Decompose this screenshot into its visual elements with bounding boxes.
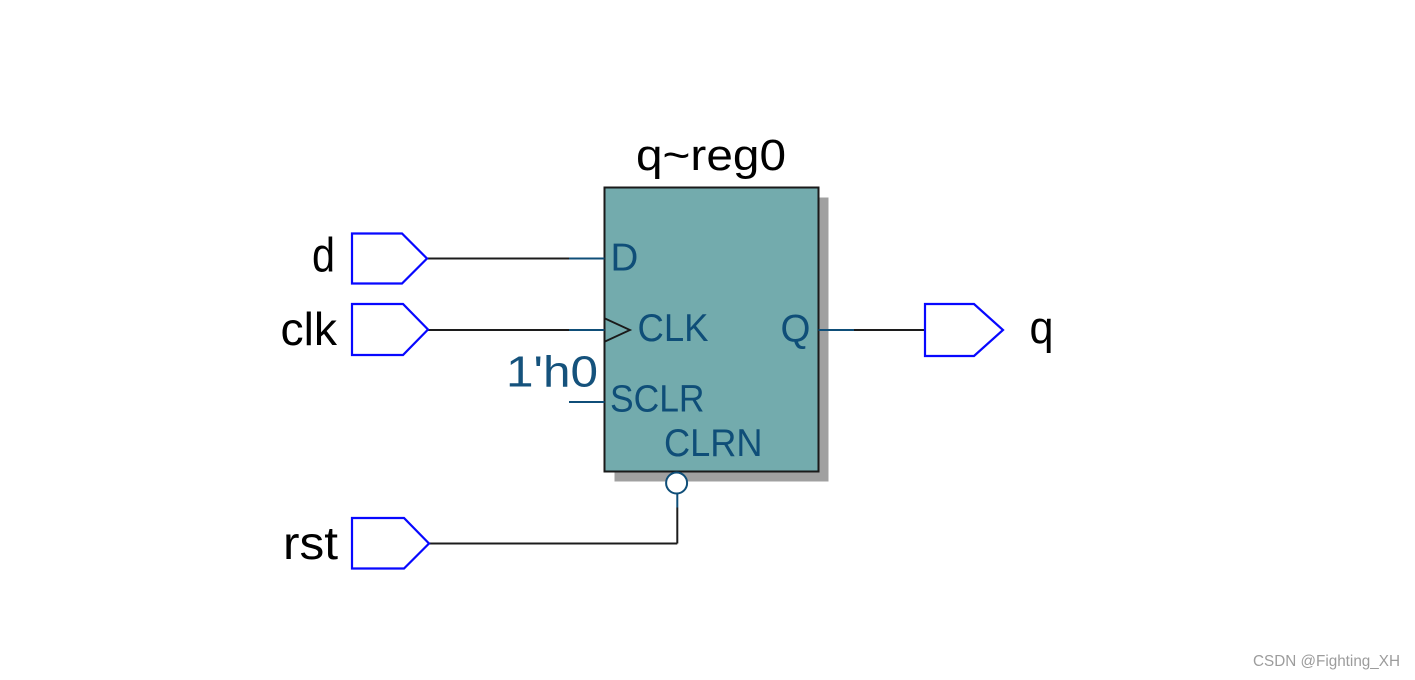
input pin clk xyxy=(352,304,428,355)
svg-text:D: D xyxy=(611,237,639,280)
wire clk to CLK (port stub) xyxy=(569,329,605,331)
output pin q xyxy=(925,304,1003,356)
svg-text:1'h0: 1'h0 xyxy=(506,348,598,397)
wire d to D (black segment) xyxy=(427,258,569,260)
flip-flop U1 body q~reg0 xyxy=(605,188,819,472)
svg-text:CSDN @Fighting_XH: CSDN @Fighting_XH xyxy=(1253,653,1400,670)
svg-text:clk: clk xyxy=(281,303,338,355)
svg-text:d: d xyxy=(312,230,335,283)
input pin d xyxy=(352,234,427,284)
wire rst horizontal segment xyxy=(429,543,677,545)
wire rst vertical segment (port stub) xyxy=(676,493,678,508)
CLRN inverter bubble xyxy=(666,473,687,494)
svg-text:CLRN: CLRN xyxy=(664,422,763,465)
wire clk to CLK (black segment) xyxy=(428,329,569,331)
flip-flop U1 shadow xyxy=(615,198,829,482)
svg-text:SCLR: SCLR xyxy=(610,379,705,421)
wire Q output (port stub) xyxy=(819,329,855,331)
svg-text:q: q xyxy=(1030,302,1054,354)
wire Q to q (black segment) xyxy=(854,329,925,331)
clock edge triangle on CLK pin xyxy=(605,319,630,342)
input pin rst xyxy=(352,518,429,569)
svg-text:q~reg0: q~reg0 xyxy=(636,131,786,180)
wire SCLR port stub from 1'h0 xyxy=(569,401,605,403)
svg-text:Q: Q xyxy=(781,308,811,351)
wire rst vertical segment (black) xyxy=(676,508,678,544)
svg-text:CLK: CLK xyxy=(638,307,709,350)
wire d to D (port stub) xyxy=(569,258,605,260)
svg-text:rst: rst xyxy=(283,517,338,569)
